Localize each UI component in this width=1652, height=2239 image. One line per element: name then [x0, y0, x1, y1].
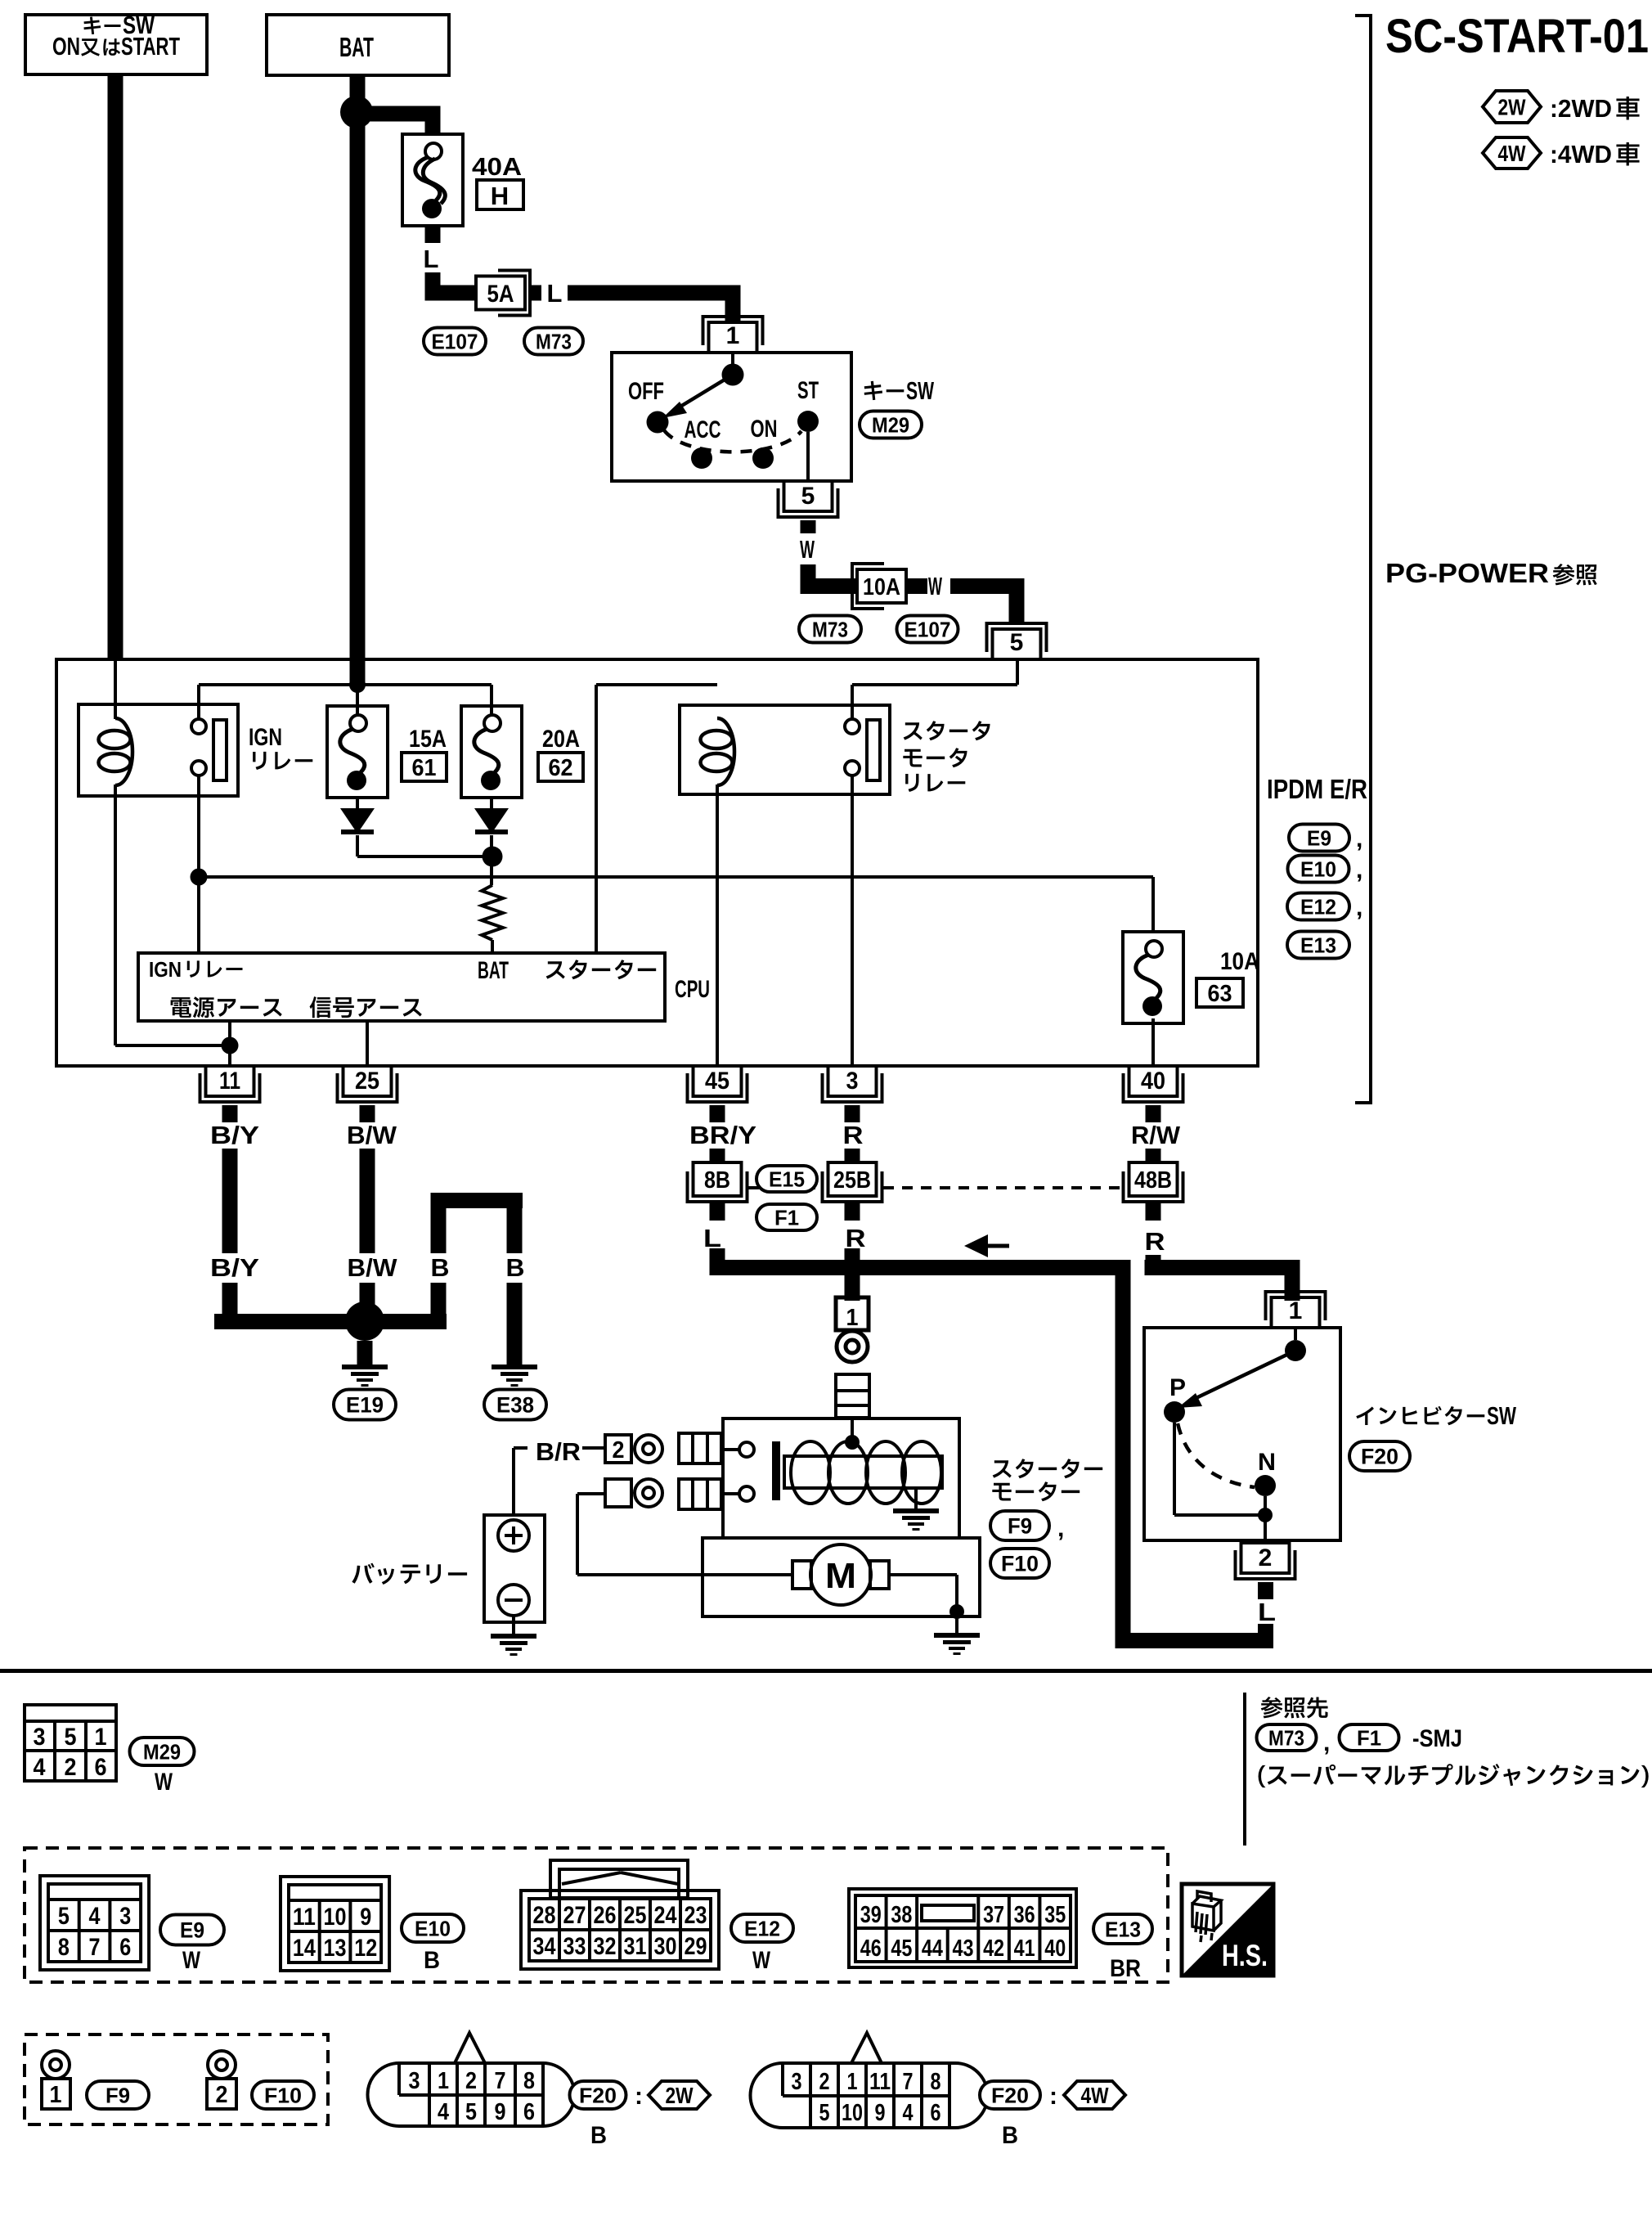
- solenoid contact circles: [739, 1442, 754, 1457]
- starter relay coil: [717, 718, 734, 785]
- label CPU signal ground: [310, 996, 422, 1018]
- oval F20 4WD: [980, 2081, 1040, 2109]
- wire 10A right W: [906, 578, 927, 594]
- svg-text:BAT: BAT: [478, 957, 509, 984]
- dashed box F9 F10: [25, 2034, 328, 2124]
- svg-text:R: R: [1145, 1227, 1165, 1256]
- wire ST to pin5: [806, 432, 810, 481]
- oval F9: [990, 1511, 1049, 1540]
- wire key-SW inside IPDM: [114, 661, 117, 719]
- solenoid coil loops: [806, 1471, 810, 1474]
- svg-text:4: 4: [903, 2100, 914, 2126]
- box solenoid terminal M: [605, 1479, 631, 1507]
- svg-text:10A: 10A: [1220, 948, 1259, 975]
- oval F20 inhibitor: [1349, 1441, 1410, 1471]
- svg-text::: :: [1049, 2083, 1057, 2110]
- svg-text:4W: 4W: [1498, 141, 1526, 166]
- wire pin45 to 8B: [710, 1149, 725, 1162]
- svg-text:3: 3: [119, 1903, 131, 1930]
- svg-text:2: 2: [65, 1754, 77, 1781]
- svg-text:ACC: ACC: [685, 416, 721, 443]
- svg-text:31: 31: [624, 1933, 647, 1960]
- svg-text:7: 7: [903, 2069, 914, 2095]
- solenoid coil band: [784, 1456, 942, 1488]
- svg-text::: :: [635, 2083, 643, 2110]
- svg-text:3: 3: [409, 2068, 420, 2094]
- svg-text:,: ,: [1356, 856, 1362, 883]
- label relay katakana: [253, 752, 312, 770]
- svg-text:6: 6: [95, 1754, 107, 1781]
- svg-text::2WD: :2WD: [1550, 94, 1612, 123]
- ring terminal M: [635, 1479, 662, 1507]
- label battery: [352, 1563, 467, 1585]
- motor M circle: [810, 1544, 871, 1605]
- svg-text:27: 27: [563, 1902, 586, 1929]
- svg-text:E15: E15: [769, 1167, 805, 1191]
- svg-text:35: 35: [1044, 1902, 1066, 1928]
- wire key switch 5 down W: [801, 520, 816, 533]
- svg-text:11: 11: [869, 2069, 891, 2095]
- connector 25B: [828, 1162, 877, 1196]
- wire key-SW vertical: [108, 74, 123, 661]
- svg-text:25: 25: [355, 1068, 379, 1095]
- svg-text:7: 7: [495, 2068, 506, 2094]
- svg-text:BR/Y: BR/Y: [689, 1121, 756, 1149]
- svg-text:20A: 20A: [542, 726, 580, 753]
- label starter motor relay: [904, 721, 990, 740]
- svg-text:45: 45: [891, 1936, 912, 1962]
- svg-text::4WD: :4WD: [1550, 140, 1612, 169]
- svg-text:B: B: [431, 1253, 450, 1282]
- starter motor relay box: [680, 705, 890, 794]
- connector face E10: [281, 1877, 389, 1971]
- fuse 61 15A: [327, 706, 388, 798]
- svg-text:8B: 8B: [704, 1167, 730, 1194]
- wire hatch to solenoid S: [721, 1448, 743, 1451]
- oval E38: [484, 1390, 546, 1420]
- svg-text:B: B: [424, 1947, 440, 1974]
- junction BAT: [340, 96, 373, 128]
- wire B loop: [431, 1193, 523, 1208]
- svg-text:11: 11: [219, 1068, 240, 1095]
- svg-text:1: 1: [847, 2069, 858, 2095]
- svg-text:39: 39: [860, 1902, 882, 1928]
- oval F10: [990, 1549, 1049, 1578]
- svg-text:40: 40: [1141, 1068, 1165, 1095]
- connector face E12: [521, 1891, 719, 1969]
- oval F10 ref: [252, 2081, 314, 2109]
- wire 25B down to starter: [845, 1203, 860, 1221]
- svg-text:5: 5: [65, 1724, 77, 1751]
- oval E12: [1287, 893, 1349, 920]
- fuse 63 10A: [1123, 932, 1183, 1023]
- oval F9 ref: [87, 2081, 149, 2109]
- solenoid internal ground: [914, 1488, 918, 1508]
- svg-text:W: W: [155, 1769, 173, 1796]
- svg-text:46: 46: [860, 1936, 882, 1962]
- key switch rotor arrow: [672, 375, 733, 411]
- junction diodes: [483, 847, 503, 867]
- svg-text:63: 63: [1208, 981, 1232, 1007]
- badge H.S.: [1182, 1884, 1273, 1976]
- key switch node ST: [797, 411, 819, 432]
- svg-text:37: 37: [983, 1902, 1004, 1928]
- box 63: [1196, 978, 1243, 1007]
- svg-text:2: 2: [1259, 1544, 1273, 1571]
- svg-text:M: M: [825, 1556, 856, 1596]
- connector 11 IPDM bottom: [206, 1066, 254, 1096]
- svg-text:E19: E19: [346, 1393, 384, 1418]
- label sanshosaki: [1261, 1697, 1328, 1718]
- svg-text:34: 34: [533, 1933, 556, 1960]
- box BAT source: [267, 15, 449, 75]
- svg-text:45: 45: [705, 1068, 729, 1095]
- svg-text:E9: E9: [180, 1918, 204, 1943]
- wire BAT to fuse 40A: [357, 106, 433, 122]
- oval M29 ref: [130, 1738, 195, 1765]
- svg-text:F20: F20: [579, 2083, 617, 2107]
- ground E38 symbol: [492, 1365, 537, 1369]
- connector 5A: [476, 277, 525, 310]
- inhibitor node N: [1255, 1475, 1276, 1496]
- hatch block S: [679, 1433, 721, 1463]
- stub below connector 25: [360, 1105, 375, 1122]
- svg-text:E13: E13: [1300, 933, 1336, 957]
- oval M29: [860, 411, 922, 438]
- key switch detent arc: [664, 430, 801, 452]
- key switch pin1 wire: [731, 353, 734, 364]
- oval E13 ref: [1093, 1914, 1152, 1944]
- svg-text:10: 10: [324, 1904, 347, 1931]
- inhibitor pin1 node: [1294, 1328, 1297, 1340]
- svg-text:40: 40: [1044, 1936, 1066, 1962]
- connector face F20 4WD: [751, 2063, 988, 2128]
- wire pin3 to 25B: [845, 1149, 860, 1162]
- svg-text:9: 9: [875, 2100, 886, 2126]
- oval E15: [756, 1166, 817, 1192]
- svg-text:41: 41: [1014, 1936, 1035, 1962]
- svg-text:1: 1: [846, 1305, 859, 1331]
- box key switch M29: [612, 353, 851, 481]
- connector face E9: [40, 1876, 149, 1970]
- junction pin11: [222, 1037, 239, 1054]
- svg-text:15A: 15A: [409, 726, 447, 753]
- svg-text:F10: F10: [1001, 1552, 1039, 1576]
- ring terminal input: [837, 1331, 868, 1362]
- svg-text:61: 61: [412, 755, 437, 781]
- wire B/Y down: [222, 1149, 238, 1253]
- oval E12 ref: [731, 1914, 793, 1942]
- oval F1 ref: [1340, 1724, 1399, 1751]
- hex 2W legend: [1483, 91, 1541, 123]
- svg-text:6: 6: [931, 2100, 941, 2126]
- label super multiple junction: [1259, 1764, 1649, 1787]
- svg-text:4W: 4W: [1081, 2083, 1109, 2108]
- svg-text:H.S.: H.S.: [1222, 1939, 1268, 1972]
- svg-text:62: 62: [549, 755, 573, 781]
- svg-text:25: 25: [624, 1902, 647, 1929]
- svg-text:2W: 2W: [1498, 95, 1526, 120]
- junction ground: [345, 1302, 384, 1341]
- ring F9: [42, 2051, 70, 2079]
- svg-text:M73: M73: [1268, 1725, 1304, 1750]
- wire fuse63 down: [1151, 1018, 1155, 1066]
- svg-text:E107: E107: [905, 617, 951, 641]
- IGN relay coil: [115, 718, 132, 785]
- svg-text:,: ,: [1356, 825, 1362, 852]
- dashed SMJ line: [748, 1186, 821, 1189]
- svg-text:E10: E10: [1300, 856, 1336, 881]
- motor ground junction: [949, 1604, 964, 1619]
- svg-text:5: 5: [819, 2100, 830, 2126]
- oval E13: [1287, 932, 1349, 959]
- box inhibitor switch: [1144, 1328, 1340, 1540]
- box IPDM E/R: [56, 659, 1258, 1066]
- CPU box: [138, 953, 665, 1021]
- connector face M29: [25, 1705, 116, 1781]
- svg-text:,: ,: [1323, 1729, 1330, 1756]
- svg-text:40A: 40A: [472, 152, 522, 181]
- svg-text:E10: E10: [415, 1916, 451, 1940]
- svg-text:1: 1: [50, 2082, 62, 2108]
- wire BAT vertical: [350, 75, 366, 686]
- svg-text:E12: E12: [744, 1916, 780, 1940]
- svg-text:33: 33: [563, 1933, 586, 1960]
- connector 2 inhibitor: [1241, 1543, 1290, 1573]
- solenoid plunger bar: [772, 1441, 780, 1500]
- svg-text:PG-POWER: PG-POWER: [1385, 558, 1549, 588]
- svg-text:3: 3: [792, 2069, 802, 2095]
- svg-text:BAT: BAT: [339, 32, 374, 62]
- wire diode61 to node: [356, 835, 359, 856]
- oval M73: [524, 328, 583, 355]
- svg-text:B/W: B/W: [348, 1253, 398, 1282]
- diode under fuse62: [490, 796, 493, 810]
- arrow on bus: [964, 1234, 988, 1257]
- connector 1 inhibitor: [1272, 1297, 1320, 1328]
- connector 1 key switch: [709, 322, 757, 353]
- svg-text:E38: E38: [496, 1393, 534, 1418]
- svg-text:1: 1: [726, 322, 740, 349]
- svg-text:B: B: [1002, 2122, 1018, 2149]
- hex 4W ref: [1064, 2081, 1125, 2109]
- wire CPU power-ground pin11: [228, 1021, 231, 1066]
- svg-text:W: W: [928, 572, 942, 600]
- svg-text:43: 43: [953, 1936, 974, 1962]
- junction IGN contact: [191, 869, 208, 886]
- wire conn5 to starter relay contact: [1016, 659, 1019, 685]
- oval E107: [424, 328, 486, 355]
- oval F20 2WD: [570, 2081, 626, 2109]
- svg-text:36: 36: [1014, 1902, 1035, 1928]
- key switch node ON: [752, 447, 774, 469]
- svg-text:7: 7: [89, 1934, 101, 1961]
- battery minus: [498, 1585, 529, 1616]
- connector face F20 2WD: [368, 2063, 575, 2126]
- svg-text:8: 8: [523, 2068, 535, 2094]
- dashed box connector faces: [25, 1848, 1168, 1982]
- svg-text:1: 1: [95, 1724, 107, 1751]
- wire CPU signal-ground pin25: [366, 1021, 369, 1066]
- wire node to fuse63: [199, 875, 1153, 879]
- svg-text:14: 14: [293, 1935, 316, 1962]
- reference column line: [1243, 1693, 1246, 1846]
- wire IGN relay coil down: [114, 785, 117, 1045]
- wire starter bus: [710, 1260, 1131, 1275]
- svg-text:SW: SW: [906, 376, 935, 405]
- svg-text:R: R: [846, 1224, 866, 1252]
- wire starter relay contact down: [851, 776, 854, 1066]
- svg-text:F9: F9: [1008, 1514, 1032, 1539]
- connector face E13: [849, 1889, 1076, 1967]
- svg-text:12: 12: [354, 1935, 377, 1962]
- svg-text:L: L: [1258, 1598, 1276, 1626]
- svg-text:IGN: IGN: [249, 724, 282, 751]
- svg-text:W: W: [800, 535, 815, 564]
- label CPU power ground: [171, 996, 282, 1018]
- svg-text:30: 30: [654, 1933, 677, 1960]
- starter motor box: [703, 1538, 980, 1616]
- key switch node ACC: [691, 447, 712, 469]
- svg-text:6: 6: [119, 1934, 131, 1961]
- svg-text:E13: E13: [1105, 1917, 1141, 1941]
- wire fuse40A to 5A: [425, 226, 441, 243]
- hatch block M: [679, 1479, 721, 1509]
- svg-text:1: 1: [1289, 1297, 1303, 1324]
- oval M73 ref: [1257, 1724, 1317, 1751]
- svg-text:B/Y: B/Y: [210, 1121, 259, 1149]
- svg-text:M73: M73: [536, 329, 572, 353]
- svg-text:ON: ON: [751, 416, 778, 443]
- svg-text:1: 1: [438, 2068, 449, 2094]
- wire diode62 to node: [490, 835, 493, 885]
- wire bus down right: [1116, 1260, 1131, 1648]
- svg-text:SW: SW: [1487, 1401, 1517, 1430]
- svg-text:2: 2: [819, 2069, 830, 2095]
- ring terminal S: [635, 1435, 662, 1463]
- box H: [477, 180, 523, 209]
- svg-text:B: B: [506, 1253, 525, 1282]
- connector 48B: [1129, 1162, 1178, 1196]
- svg-text:M29: M29: [872, 412, 909, 437]
- hex 2W ref: [649, 2081, 710, 2109]
- starter relay contact circles: [845, 719, 860, 734]
- connector 3 IPDM bottom: [828, 1066, 877, 1096]
- svg-text:5: 5: [801, 483, 815, 510]
- svg-text:CPU: CPU: [675, 976, 710, 1003]
- fuse 62 20A: [461, 706, 522, 798]
- svg-text:B: B: [590, 2122, 607, 2149]
- svg-text:13: 13: [324, 1935, 347, 1962]
- svg-text:-SMJ: -SMJ: [1412, 1725, 1462, 1752]
- svg-text:START: START: [121, 32, 180, 61]
- inhibitor node P: [1164, 1401, 1185, 1423]
- svg-text:R: R: [843, 1121, 864, 1149]
- svg-text:48B: 48B: [1134, 1167, 1172, 1194]
- wire input to coil: [851, 1418, 854, 1441]
- wire coil-ground junction: [115, 1044, 230, 1047]
- label inhibitor SW: [1356, 1406, 1484, 1425]
- svg-text:M29: M29: [143, 1739, 181, 1764]
- svg-text:L: L: [547, 279, 563, 308]
- svg-text:,: ,: [1057, 1515, 1064, 1542]
- svg-text:26: 26: [594, 1902, 617, 1929]
- svg-text:L: L: [424, 245, 439, 273]
- IGN relay contact bar: [213, 720, 227, 780]
- svg-text:25B: 25B: [833, 1167, 871, 1194]
- svg-text:2: 2: [465, 2068, 477, 2094]
- svg-text:SC-START-01: SC-START-01: [1385, 10, 1649, 63]
- reference bracket: [1369, 14, 1372, 1104]
- svg-text:F20: F20: [991, 2083, 1029, 2107]
- connector 40 IPDM bottom: [1129, 1066, 1178, 1096]
- svg-text:4: 4: [438, 2099, 449, 2125]
- svg-text:3: 3: [846, 1068, 859, 1095]
- section divider: [0, 1669, 1652, 1673]
- svg-text:E9: E9: [1307, 825, 1331, 850]
- motor ground: [955, 1616, 958, 1633]
- connector 25 IPDM bottom: [343, 1066, 392, 1096]
- svg-text:F10: F10: [264, 2083, 302, 2107]
- svg-text:6: 6: [523, 2099, 535, 2125]
- wire 5A to key switch conn: [528, 285, 541, 301]
- svg-text:5: 5: [465, 2099, 477, 2125]
- wire to ground E19: [357, 1341, 373, 1365]
- key switch pin1 node: [722, 364, 744, 386]
- stub below connector 45: [710, 1105, 725, 1122]
- motor tabs: [792, 1561, 811, 1589]
- svg-text:9: 9: [360, 1904, 371, 1931]
- svg-text:N: N: [1258, 1449, 1276, 1476]
- connector face E12 tab: [550, 1860, 688, 1898]
- svg-text:B/R: B/R: [536, 1437, 581, 1466]
- junction BAT bus: [349, 677, 366, 693]
- box 62: [538, 753, 583, 781]
- battery box: [484, 1515, 545, 1622]
- svg-text:OFF: OFF: [628, 378, 664, 405]
- svg-text:9: 9: [495, 2099, 506, 2125]
- svg-text:42: 42: [983, 1936, 1004, 1962]
- svg-text:E12: E12: [1300, 894, 1336, 919]
- svg-text:5: 5: [1010, 629, 1024, 656]
- svg-text:11: 11: [293, 1904, 316, 1931]
- svg-text:10: 10: [842, 2100, 863, 2126]
- battery plus: [498, 1520, 529, 1551]
- svg-text:2W: 2W: [666, 2083, 694, 2108]
- svg-text:5A: 5A: [487, 281, 514, 308]
- oval M73 second: [799, 616, 861, 643]
- svg-text:W: W: [182, 1947, 201, 1974]
- svg-text:W: W: [752, 1947, 771, 1974]
- svg-text:IPDM E/R: IPDM E/R: [1267, 774, 1367, 804]
- svg-text:F1: F1: [1357, 1725, 1381, 1750]
- connector 5 IPDM top: [993, 629, 1041, 659]
- stub below connector 11: [222, 1105, 238, 1122]
- svg-text:IGN: IGN: [149, 957, 182, 982]
- wire B/W down: [360, 1149, 375, 1253]
- wire CPU starter up: [595, 685, 598, 953]
- solenoid coil junction dot: [845, 1435, 860, 1450]
- svg-text:29: 29: [685, 1933, 707, 1960]
- oval E107 second: [897, 616, 958, 643]
- svg-text:F1: F1: [774, 1205, 799, 1230]
- svg-text:,: ,: [1356, 894, 1362, 921]
- battery wire up: [512, 1448, 515, 1515]
- ring F10: [208, 2051, 236, 2079]
- starter relay contact bar: [867, 720, 880, 780]
- oval E19: [334, 1390, 396, 1420]
- inhibitor P wire: [1173, 1423, 1176, 1515]
